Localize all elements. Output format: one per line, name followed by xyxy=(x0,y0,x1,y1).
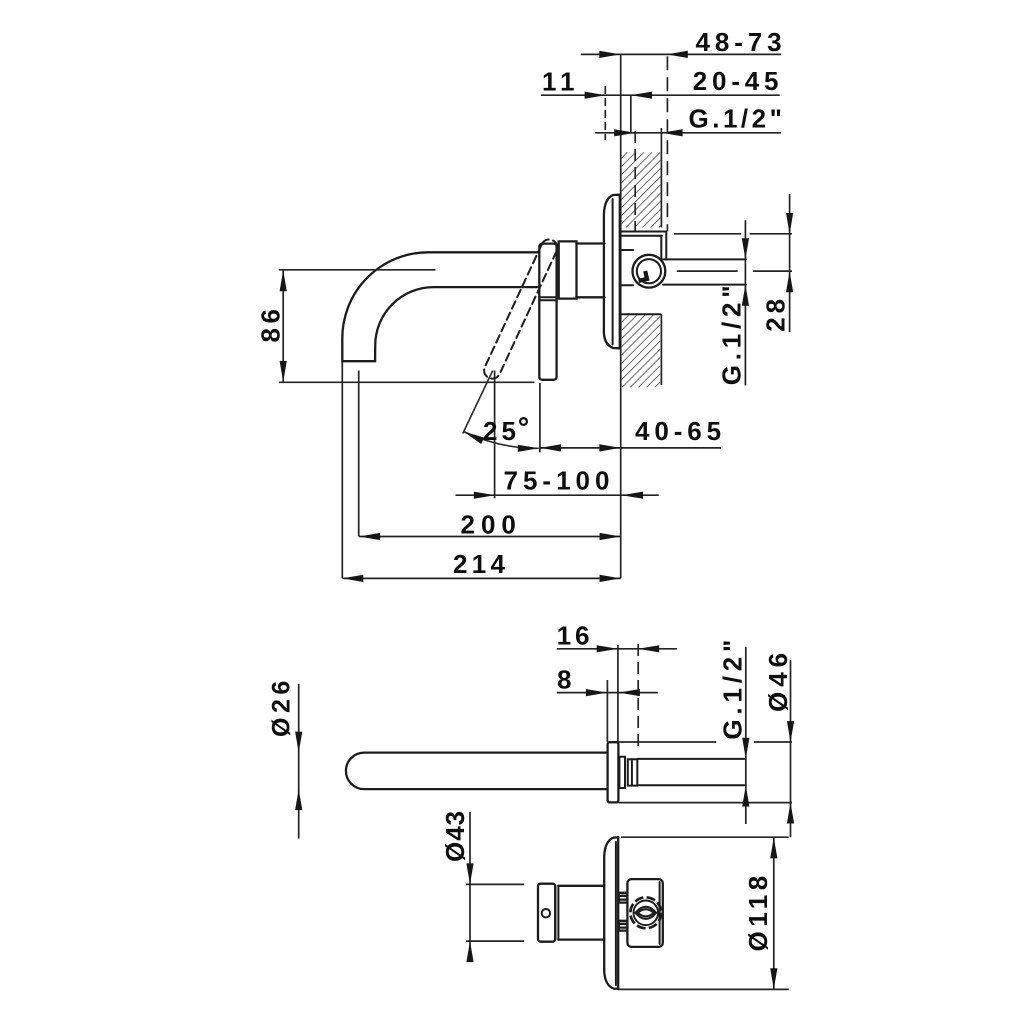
svg-text:16: 16 xyxy=(557,621,593,651)
svg-text:Ø46: Ø46 xyxy=(763,648,793,712)
svg-text:G.1/2": G.1/2" xyxy=(717,281,747,386)
svg-text:48-73: 48-73 xyxy=(696,27,787,57)
svg-text:28: 28 xyxy=(761,295,791,332)
svg-text:8: 8 xyxy=(557,665,576,695)
svg-text:G.1/2": G.1/2" xyxy=(689,104,786,134)
svg-text:G.1/2": G.1/2" xyxy=(717,635,747,740)
svg-text:Ø118: Ø118 xyxy=(743,871,773,951)
svg-text:Ø43: Ø43 xyxy=(440,810,470,862)
svg-text:86: 86 xyxy=(256,305,286,343)
svg-text:11: 11 xyxy=(542,67,580,97)
svg-text:25: 25 xyxy=(483,416,520,446)
svg-text:75-100: 75-100 xyxy=(504,466,615,496)
svg-text:40-65: 40-65 xyxy=(635,416,726,446)
svg-text:Ø26: Ø26 xyxy=(268,676,296,737)
svg-text:214: 214 xyxy=(453,549,509,579)
svg-text:20-45: 20-45 xyxy=(693,66,784,96)
svg-text:200: 200 xyxy=(461,510,522,540)
